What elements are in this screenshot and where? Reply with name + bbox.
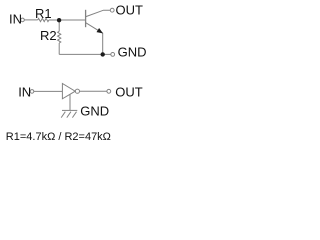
svg-text:R1: R1 xyxy=(35,6,52,21)
svg-text:IN: IN xyxy=(9,11,22,26)
svg-text:GND: GND xyxy=(118,45,147,60)
svg-text:R1=4.7kΩ / R2=47kΩ: R1=4.7kΩ / R2=47kΩ xyxy=(6,131,111,143)
svg-text:IN: IN xyxy=(18,85,31,100)
svg-text:R2: R2 xyxy=(40,28,57,43)
svg-text:OUT: OUT xyxy=(116,2,144,17)
svg-text:GND: GND xyxy=(80,104,109,119)
svg-text:OUT: OUT xyxy=(115,84,143,99)
